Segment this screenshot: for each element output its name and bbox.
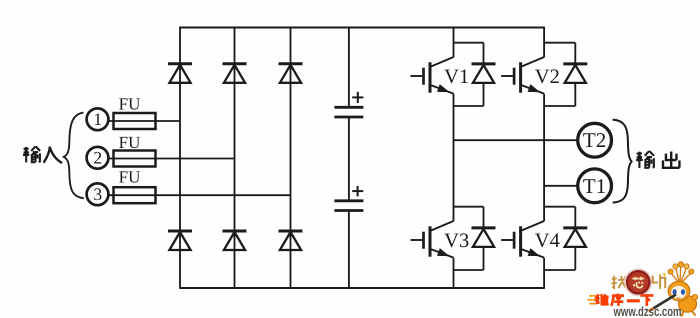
svg-text:www.dzsc.com: www.dzsc.com (613, 304, 682, 318)
svg-text:T2: T2 (583, 128, 606, 152)
wire V2 collector from top bus (543, 28, 545, 58)
wire diode branch bottom of V4 (574, 247, 576, 270)
diode VD1 (168, 62, 192, 65)
transistor V3 body bar (429, 226, 432, 256)
wire right bridge leg mid (543, 94, 545, 222)
transistor V4 body bar (519, 226, 522, 256)
wire phase 1 to leg 1 (108, 120, 180, 122)
input terminal circle 1 (87, 108, 109, 130)
svg-text:2: 2 (93, 148, 102, 168)
transistor V3 gate bar (422, 232, 425, 249)
transistor V2 emitter stroke (521, 85, 544, 94)
wire V1 collector from top bus (453, 28, 455, 58)
watermark speed lines (589, 295, 598, 297)
wire diode branch top of V2 (574, 43, 576, 64)
svg-text:FU: FU (119, 167, 141, 186)
watermark 找 glyph (611, 276, 626, 288)
svg-text:V1: V1 (444, 66, 469, 88)
watermark 片 glyph (653, 274, 665, 288)
input terminal circle 3 (87, 183, 109, 205)
freewheel diode of V2 (563, 62, 587, 65)
wire rectifier leg 2 (234, 27, 236, 288)
transistor V3 emitter stroke (431, 249, 454, 258)
output terminal circle T1 (578, 169, 612, 203)
svg-text:V2: V2 (535, 66, 560, 88)
wire phase 2 to leg 2 (108, 158, 234, 160)
wire rectifier leg 1 (179, 27, 181, 288)
input label 输入 (23, 146, 40, 162)
transistor V4 emitter arrow (528, 249, 540, 256)
transistor V3 collector stroke (431, 221, 454, 231)
wire diode branch bottom of V1 (483, 83, 485, 106)
polarity + of C1 (352, 96, 363, 98)
output terminal circle T2 (578, 123, 612, 157)
wire capacitor middle link (348, 117, 350, 201)
diode VD2 (223, 62, 247, 65)
svg-text:FU: FU (119, 94, 141, 113)
transistor V1 gate bar (422, 68, 425, 85)
wire V4 emitter to bottom bus (543, 258, 545, 288)
capacitor C1 (334, 106, 363, 109)
watermark pen (652, 295, 677, 310)
transistor V1 gate lead (411, 75, 423, 77)
svg-text:V4: V4 (535, 230, 560, 252)
transistor V2 collector stroke (521, 57, 544, 67)
transistor V3 gate lead (411, 239, 423, 241)
diode VD6 (279, 230, 303, 233)
svg-text:3: 3 (93, 184, 102, 204)
wire diode branch bottom of V2 (574, 83, 576, 106)
wire capacitor leg lower (348, 211, 350, 289)
transistor V4 emitter stroke (521, 249, 544, 258)
wire left bridge leg mid (453, 94, 455, 222)
fuse FU3 (114, 187, 156, 203)
wire bottom DC bus (179, 287, 545, 289)
wire diode branch bottom of V3 (483, 247, 485, 270)
capacitor C2 (334, 199, 363, 202)
freewheel diode of V1 (472, 62, 496, 65)
watermark magnifier circle (627, 271, 649, 293)
watermark 维库一下 text (596, 294, 609, 305)
output label 输出 (636, 151, 654, 168)
input terminal circle 2 (87, 147, 109, 169)
freewheel diode of V3 (472, 226, 496, 229)
transistor V4 gate bar (513, 232, 516, 249)
diode VD3 (279, 62, 303, 65)
watermark 芯 glyph (632, 277, 644, 288)
svg-text:V3: V3 (444, 230, 469, 252)
wire output T1 from right leg (544, 185, 577, 187)
wire collector branch of V3 (454, 206, 484, 208)
wire capacitor leg upper (348, 27, 350, 108)
transistor V1 body bar (429, 62, 432, 92)
fuse FU2 (114, 151, 156, 167)
wire collector branch of V1 (454, 42, 484, 44)
wire diode branch top of V1 (483, 43, 485, 64)
wire top DC bus (179, 27, 545, 29)
wire phase 3 to leg 3 (108, 194, 290, 196)
svg-text:T1: T1 (583, 174, 606, 198)
transistor V1 emitter arrow (437, 85, 449, 92)
transistor V4 gate lead (501, 239, 513, 241)
wire diode branch top of V3 (483, 207, 485, 228)
svg-text:1: 1 (93, 109, 102, 129)
transistor V2 emitter arrow (528, 85, 540, 92)
input grouping brace (64, 113, 84, 199)
wire diode branch top of V4 (574, 207, 576, 228)
polarity + of C2 (352, 190, 363, 192)
wire output T2 from left leg (454, 139, 578, 141)
transistor V2 gate lead (501, 75, 513, 77)
fuse FU1 (114, 113, 156, 129)
diode VD4 (168, 230, 192, 233)
wire collector branch of V4 (544, 206, 575, 208)
svg-text:FU: FU (119, 133, 141, 152)
transistor V1 collector stroke (431, 57, 454, 67)
output grouping brace (613, 120, 632, 203)
watermark mascot (671, 273, 679, 283)
wire rectifier leg 3 (290, 27, 292, 288)
transistor V4 collector stroke (521, 221, 544, 231)
wire V3 emitter to bottom bus (453, 258, 455, 288)
transistor V2 body bar (519, 62, 522, 92)
transistor V2 gate bar (513, 68, 516, 85)
wire collector branch of V2 (544, 42, 575, 44)
transistor V3 emitter arrow (437, 249, 449, 256)
transistor V1 emitter stroke (431, 85, 454, 94)
diode VD5 (223, 230, 247, 233)
freewheel diode of V4 (563, 226, 587, 229)
